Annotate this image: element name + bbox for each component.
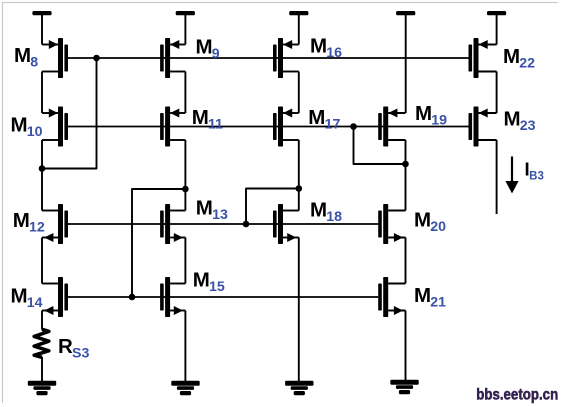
svg-text:M16: M16 <box>310 35 342 61</box>
label M8 <box>14 44 38 70</box>
junction dot node row4 bus <box>129 294 136 301</box>
svg-text:RS3: RS3 <box>58 335 89 361</box>
wire row4 gate bus <box>68 296 378 298</box>
VDD rail 2 <box>176 11 195 15</box>
label M21 <box>414 284 446 310</box>
junction dot node B col B <box>182 186 189 193</box>
wire VDD5 stem <box>496 14 498 45</box>
label M20 <box>414 209 446 235</box>
VDD rail 1 <box>32 11 51 15</box>
wire M12 source to M14 drain <box>41 238 43 284</box>
wire VDD4 stem to M19 source <box>405 14 407 113</box>
transistor M19 <box>378 107 405 147</box>
junction dot node row3 bus <box>243 221 250 228</box>
svg-text:M11: M11 <box>192 106 223 132</box>
ground 2 <box>171 381 199 395</box>
wire row1 gate bus <box>68 57 469 59</box>
label M11 <box>192 106 223 132</box>
ground 3 <box>285 381 313 395</box>
wire M20 source to M21 drain <box>405 238 407 284</box>
wire row3 gate bus <box>68 223 378 225</box>
transistor M16 <box>273 38 299 78</box>
label M10 <box>11 114 43 140</box>
label M14 <box>11 285 43 311</box>
transistor M13 <box>160 204 185 244</box>
transistor M9 <box>160 38 185 78</box>
transistor M10 <box>42 107 68 147</box>
wire RS3 to ground <box>41 357 43 382</box>
wire M13 source to M15 drain <box>184 238 186 284</box>
wire M8 drain to M10 source <box>41 72 43 114</box>
wire node D to row2 bus <box>354 127 406 165</box>
svg-text:M15: M15 <box>193 269 225 295</box>
label M23 <box>504 108 536 134</box>
wire M21 source to ground <box>405 311 407 381</box>
junction dot node A col A <box>39 165 46 172</box>
wire M18 source to ground <box>298 238 300 382</box>
transistor M17 <box>273 107 299 147</box>
wire row1 bus to node A <box>41 58 96 169</box>
transistor M22 <box>469 38 497 78</box>
transistor M23 <box>469 107 497 147</box>
ground 1 <box>28 381 56 395</box>
VDD rail 4 <box>396 11 415 15</box>
wire M17 drain to M18 drain <box>298 140 300 211</box>
wire node B to row4 bus <box>132 189 185 297</box>
label M15 <box>193 269 225 295</box>
wire M23 drain output <box>496 140 498 214</box>
svg-text:M21: M21 <box>414 284 446 310</box>
transistor M20 <box>378 204 405 244</box>
wire node to M13 drain <box>184 189 186 211</box>
wire M22 drain to M23 source <box>496 72 498 114</box>
wire M19 drain to M20 drain <box>405 140 407 211</box>
wire node C to row3 bus <box>246 189 299 225</box>
svg-text:M22: M22 <box>503 45 535 71</box>
svg-text:M17: M17 <box>308 106 340 132</box>
wire VDD2 stem <box>184 14 186 45</box>
svg-text:bbs.eetop.cn: bbs.eetop.cn <box>476 387 558 404</box>
svg-text:M18: M18 <box>310 199 342 225</box>
wire M16 drain to M17 source <box>298 72 300 114</box>
transistor M18 <box>273 204 299 244</box>
svg-text:M10: M10 <box>11 114 43 140</box>
current arrow IB3 <box>505 157 518 194</box>
VDD rail 5 <box>487 11 506 15</box>
junction dot node row2 bus <box>350 123 357 130</box>
svg-text:M20: M20 <box>414 209 446 235</box>
label M12 <box>13 209 45 235</box>
transistor M11 <box>160 107 185 147</box>
svg-text:IB3: IB3 <box>525 159 544 183</box>
transistor M14 <box>42 277 68 317</box>
svg-text:M8: M8 <box>14 44 38 70</box>
ground 4 <box>390 380 418 394</box>
label IB3 <box>525 159 544 183</box>
wire M9 drain to M11 source <box>184 72 186 114</box>
label M9 <box>196 36 220 62</box>
junction dot node gate row1 <box>93 55 100 62</box>
wire M10 drain to M12 drain <box>41 140 43 211</box>
resistor RS3 <box>34 329 49 357</box>
label RS3 <box>58 335 89 361</box>
wire M11 drain down to node <box>184 140 186 189</box>
label M18 <box>310 199 342 225</box>
wire row2 gate bus <box>68 126 469 128</box>
svg-text:M9: M9 <box>196 36 220 62</box>
watermark bbs.eetop.cn <box>476 387 558 404</box>
transistor M12 <box>42 204 68 244</box>
VDD rail 3 <box>289 11 308 15</box>
label M22 <box>503 45 535 71</box>
wire M15 source to ground <box>184 311 186 382</box>
label M13 <box>196 197 228 223</box>
svg-text:M19: M19 <box>415 102 447 128</box>
wire VDD3 stem <box>298 14 300 45</box>
wire M14 source to RS3 <box>41 311 43 330</box>
transistor M15 <box>160 277 185 317</box>
label M17 <box>308 106 340 132</box>
label M19 <box>415 102 447 128</box>
junction dot node C col C <box>296 185 303 192</box>
svg-text:M12: M12 <box>13 209 45 235</box>
svg-text:M14: M14 <box>11 285 43 311</box>
junction dot node D col D <box>402 161 409 168</box>
wire VDD1 stem <box>41 14 43 45</box>
transistor M8 <box>42 38 68 78</box>
svg-text:M13: M13 <box>196 197 228 223</box>
svg-text:M23: M23 <box>504 108 536 134</box>
transistor M21 <box>378 277 405 317</box>
label M16 <box>310 35 342 61</box>
